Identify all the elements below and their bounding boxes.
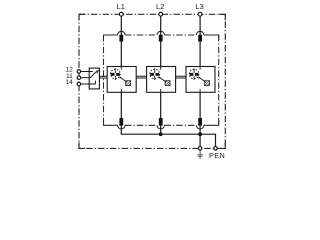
svg-text:L3: L3 <box>195 2 203 11</box>
svg-text:14: 14 <box>65 79 73 86</box>
svg-text:L2: L2 <box>156 2 164 11</box>
svg-text:PEN: PEN <box>209 151 225 160</box>
svg-text:L1: L1 <box>117 2 125 11</box>
